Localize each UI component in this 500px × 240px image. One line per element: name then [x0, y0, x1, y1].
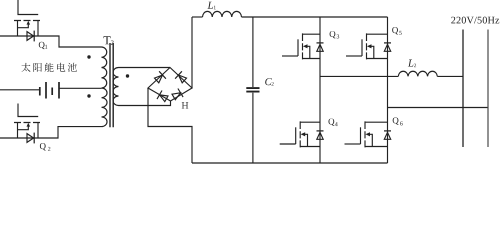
wire L2 to grid: [437, 75, 463, 77]
transistor Q6 gate lead: [345, 143, 361, 145]
wire H-bridge left leg: [319, 17, 321, 163]
capacitor C2: [252, 17, 254, 87]
label Q5: [392, 27, 398, 34]
transformer secondary dot: [126, 74, 129, 77]
transistor Q6 source bar: [365, 146, 388, 148]
transistor Q2 gate lead: [18, 104, 38, 117]
grid bus bar left: [462, 30, 464, 148]
label T2: [104, 36, 111, 44]
transistor Q1 drain tap: [17, 21, 19, 37]
transistor Q2 channel: [14, 122, 40, 124]
wire bridge output A: [320, 75, 398, 77]
transistor Q6 body diode: [384, 132, 390, 139]
transistor Q4 body diode: [317, 132, 323, 139]
wire battery to transformer center tap: [59, 87, 102, 89]
transistor Q1 substrate arrow: [18, 24, 29, 27]
label Q2: [40, 143, 46, 150]
transformer T primary winding: [102, 47, 108, 127]
transistor Q4 drain bar: [300, 121, 320, 123]
transistor Q3 drain bar: [303, 33, 321, 35]
transistor Q3 body diode: [317, 44, 323, 51]
wire top rail right: [242, 16, 388, 18]
wire Q2 main rail: [0, 127, 102, 138]
diode D1 top-left: [155, 75, 163, 83]
transistor Q5 substrate arrow: [371, 46, 374, 58]
transistor Q6 channel: [364, 121, 366, 147]
transistor Q4 gate lead: [280, 143, 296, 145]
transistor Q6 substrate arrow: [369, 134, 372, 146]
transistor Q6 drain bar: [365, 121, 388, 123]
transistor Q1 channel: [14, 20, 40, 22]
wire bottom rail: [192, 162, 388, 164]
label L1: [207, 2, 213, 9]
inductor L1: [203, 11, 242, 17]
label Q1: [39, 42, 45, 49]
transistor Q3 source bar: [303, 58, 321, 60]
label L2: [408, 60, 414, 67]
transistor Q2 source tap: [37, 123, 39, 139]
battery B solar cell stack: [40, 82, 59, 99]
wire secondary top to bridge: [119, 67, 171, 69]
label 太阳能电池 solar battery: [21, 63, 77, 72]
label 220V/50Hz: [451, 17, 455, 24]
transistor Q5 channel: [366, 33, 368, 59]
diode D3 bottom-left: [160, 95, 169, 102]
transistor Q6 gate plate: [360, 127, 362, 144]
transistor Q2 drain tap: [17, 123, 19, 139]
transformer primary dot upper: [87, 55, 90, 58]
transistor Q5 body diode: [384, 44, 390, 51]
transistor Q5 drain bar: [367, 33, 388, 35]
wire bridge plus to top rail: [191, 17, 193, 88]
transformer primary dot lower: [87, 94, 90, 97]
transistor Q3 gate lead: [282, 55, 298, 57]
transistor Q5 gate lead: [346, 55, 362, 57]
transistor Q3 channel: [302, 33, 304, 59]
label Q6: [393, 117, 399, 124]
bridge rectifier H frame: [148, 68, 192, 102]
transistor Q1 source tap: [37, 21, 39, 37]
wire bridge minus to bottom rail: [148, 88, 192, 163]
transistor Q3 substrate arrow: [307, 46, 310, 58]
wire H-bridge right leg: [387, 17, 389, 163]
transformer T secondary winding: [113, 68, 118, 106]
transistor Q3 gate plate: [297, 39, 299, 56]
label C2: [265, 78, 272, 85]
transistor Q5 gate plate: [361, 39, 363, 56]
wire Q1 main rail: [0, 36, 102, 47]
wire secondary bottom to bridge: [119, 101, 171, 106]
wire top rail left: [192, 16, 203, 18]
diode D4 bottom-right: [172, 93, 181, 100]
label H: [182, 102, 189, 109]
transistor Q1 body diode: [27, 32, 34, 41]
label Q3: [330, 31, 336, 38]
transistor Q4 substrate arrow: [305, 134, 308, 146]
grid bus bar right: [487, 30, 489, 148]
transistor Q5 source bar: [367, 58, 388, 60]
transformer T core: [110, 43, 113, 127]
transistor Q4 gate plate: [295, 127, 297, 144]
wire battery left: [0, 89, 40, 91]
transistor Q4 channel: [299, 121, 301, 147]
inductor L2: [398, 71, 437, 76]
label Q4: [328, 118, 334, 125]
wire bridge output B: [388, 107, 489, 109]
transistor Q4 source bar: [300, 146, 320, 148]
transistor Q1 gate lead: [18, 0, 38, 15]
diode D2 top-right: [179, 75, 187, 83]
transistor Q2 body diode: [27, 134, 34, 143]
transistor Q2 substrate arrow: [18, 126, 29, 129]
